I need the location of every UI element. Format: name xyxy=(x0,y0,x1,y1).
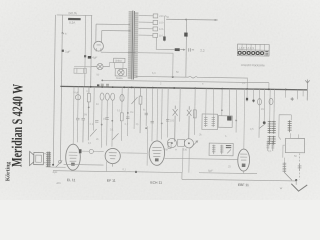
pot arrow x94 xyxy=(90,129,97,137)
coil arrow mid xyxy=(259,123,266,128)
speaker magnet frame xyxy=(34,153,44,165)
osc padder circle left xyxy=(167,138,176,147)
V2 cathode blob xyxy=(71,163,75,166)
node switch xyxy=(52,164,54,166)
wire drop x168 xyxy=(166,88,169,138)
trimmer X symbol right xyxy=(186,106,191,139)
wire drop x122 xyxy=(121,87,123,113)
IF can 1 winding right xyxy=(211,116,215,127)
wire mains drop right xyxy=(60,15,62,160)
wire box left drop xyxy=(283,145,286,158)
V3 pin stub left xyxy=(106,162,108,172)
wire drop x83 xyxy=(82,87,84,119)
chassis bus line xyxy=(60,86,307,89)
speaker magnet inner xyxy=(36,155,42,162)
ballast box Urdox xyxy=(114,58,125,63)
wire x122 tail xyxy=(120,121,122,141)
wire bottom run A xyxy=(64,163,104,166)
wire drop x222 xyxy=(221,89,223,116)
tube V5 EBF11 xyxy=(238,149,250,171)
cap x168 xyxy=(166,119,169,121)
IF transformer winding A xyxy=(212,145,216,155)
wire V4 top pin xyxy=(156,88,159,141)
switch contact circle xyxy=(59,160,62,163)
antenna riser at right xyxy=(306,83,308,100)
wire drop x285 xyxy=(285,90,287,98)
coil winding vertical B2 xyxy=(272,136,276,145)
IF transformer dark marks xyxy=(226,146,231,148)
trimmer on shaft xyxy=(298,164,302,171)
arrow pot small xyxy=(180,49,185,51)
components above V4: resistor xyxy=(168,142,171,148)
oval x271 below bus xyxy=(269,98,273,104)
wire drop x297 xyxy=(297,90,299,100)
osc section box 2 xyxy=(218,116,232,128)
power transformer T1 primary winding ticks xyxy=(128,12,133,78)
IF transformer arrow xyxy=(227,149,231,153)
wire drop x102 xyxy=(100,100,103,147)
grid oval b xyxy=(105,93,109,100)
wire drop x270 xyxy=(269,89,271,120)
wire rect anode right xyxy=(101,30,103,42)
resistor x195 xyxy=(193,110,196,118)
wire drop x146 xyxy=(145,88,148,127)
osc leads down xyxy=(183,148,190,173)
scattered value labels xyxy=(96,71,297,169)
wire drop from heater to AC rail xyxy=(172,53,174,77)
osc pot arrow xyxy=(190,141,197,149)
grid cap small circle V2 xyxy=(89,149,93,153)
components above V5 resistor b xyxy=(271,141,274,151)
trimmer X symbol left xyxy=(172,106,178,142)
output tube V2 EL11 xyxy=(66,144,81,170)
rear connector strip cells xyxy=(242,44,265,56)
dark node x247 xyxy=(246,98,248,101)
wire speaker top link xyxy=(43,154,46,163)
wire lamp box risers xyxy=(109,62,123,68)
wire V4 to V5 coupling xyxy=(164,158,237,159)
labels under osc xyxy=(164,148,188,151)
wire bottom join vertical xyxy=(181,173,183,180)
cap x128 xyxy=(126,117,129,119)
rectifier tube V1 xyxy=(94,41,104,51)
screen oval x122 xyxy=(120,94,124,101)
wire speaker bottom run xyxy=(51,166,65,168)
wire coil top xyxy=(283,158,285,162)
resistor x122 lower xyxy=(120,113,123,121)
tube V3 EF11 circle xyxy=(105,148,120,163)
components above V5 resistor a xyxy=(266,141,269,151)
wire AC rail drop at 247 xyxy=(246,78,248,89)
dial lamp L2 box xyxy=(115,69,127,77)
rear connector sockets row xyxy=(238,51,263,54)
wire mains horizontal top xyxy=(57,14,92,16)
IF can 1 winding left xyxy=(204,116,208,127)
capacitor C1 node xyxy=(62,50,64,52)
IF transformer winding B xyxy=(220,145,224,155)
wire drop x180 xyxy=(179,88,181,122)
node HT rail left xyxy=(101,79,103,81)
cap oval x259 xyxy=(257,99,261,105)
arrow x116 xyxy=(112,133,118,140)
cap x78 xyxy=(76,118,79,120)
node junction on run xyxy=(185,19,187,21)
wire selector lower row xyxy=(156,37,175,49)
bus junction nodes xyxy=(90,86,287,91)
wire drop x134 xyxy=(133,87,136,129)
pot arrow x134 xyxy=(131,97,137,104)
pot arrow bottom right xyxy=(284,172,292,180)
wire drop from junction xyxy=(185,20,188,78)
node on AC rail xyxy=(172,76,174,78)
wire rect anode tap xyxy=(96,23,130,25)
plus mark right xyxy=(291,97,294,100)
wire heater to transformer xyxy=(101,51,136,53)
wire bottom run C xyxy=(182,179,296,181)
wire drop x112 xyxy=(111,100,114,146)
voltage selector tap wires xyxy=(138,16,153,36)
wire drop x264 xyxy=(263,89,265,121)
rear connector strip outline xyxy=(237,44,269,56)
wire chevron drop xyxy=(295,180,297,185)
coil winding vertical A xyxy=(268,121,272,134)
wire V5 bottom drop xyxy=(199,170,257,173)
wire AC indicator rail xyxy=(136,76,248,79)
cap x146 xyxy=(145,113,148,115)
dark node x264 xyxy=(263,121,266,124)
wire drop x152 xyxy=(151,88,154,142)
wire bottom run B xyxy=(53,171,182,173)
wire drop x195 xyxy=(194,88,197,135)
resistor dark on collector xyxy=(163,36,166,40)
V2 internal electrodes xyxy=(69,152,78,161)
wire mains drop left xyxy=(53,15,55,165)
switch arrow xyxy=(56,160,63,167)
wire drop x128 xyxy=(127,87,130,136)
wire drop x247 lower xyxy=(246,89,248,102)
resistor vertical x88 upper xyxy=(87,87,91,141)
dial lamp L1 xyxy=(91,63,110,69)
wire PU box risers xyxy=(290,133,298,138)
resistor R2 block dark xyxy=(184,33,187,37)
cap x97 xyxy=(95,120,98,122)
grid oval a xyxy=(100,93,104,100)
blob above bus x98 xyxy=(97,84,99,86)
wire drop x206 xyxy=(206,88,214,116)
node bottom right xyxy=(295,179,297,181)
V5 internal electrodes xyxy=(240,154,247,160)
IF transformer box bottom xyxy=(209,143,233,156)
wire drop x274 xyxy=(273,89,275,120)
wire HT drop right end xyxy=(268,83,270,90)
label tap voltages xyxy=(159,14,164,38)
chevron wave switch xyxy=(291,184,307,192)
rear connector strip divider xyxy=(238,49,270,51)
node on aux drop xyxy=(84,55,86,57)
wire drop x259 xyxy=(258,89,261,138)
dark blob in box2 xyxy=(227,116,231,120)
fuse F1 xyxy=(68,18,81,20)
wire drop x236 xyxy=(235,89,238,133)
coil winding vertical B xyxy=(272,121,276,134)
V4 cathode blob xyxy=(155,158,159,161)
wire transformer feed down xyxy=(90,15,93,86)
dial lamp L2 xyxy=(118,69,124,75)
wire rect anode tap2 xyxy=(102,29,131,31)
wire drop x303 xyxy=(302,90,304,97)
coil winding vertical A2 xyxy=(267,136,271,145)
osc trimmer box middle xyxy=(178,139,185,146)
tube V4 ECH11 xyxy=(149,141,165,166)
power transformer T1 secondary winding ticks xyxy=(134,13,138,77)
wire selector collector xyxy=(164,16,166,42)
wire drop x78 xyxy=(76,87,79,143)
switch box dashed left xyxy=(74,67,90,74)
wire selector to dial lamp run xyxy=(166,18,217,21)
link line right xyxy=(279,115,292,140)
wire drop x253 xyxy=(252,89,254,103)
dark node x253 xyxy=(252,99,254,101)
V4 internal electrodes xyxy=(152,147,161,156)
power transformer T1 core xyxy=(132,11,135,80)
rear connector right cell marks xyxy=(265,51,268,54)
node on run B xyxy=(135,171,137,173)
coil winding vertical C xyxy=(288,120,292,132)
V5 cathode blob xyxy=(242,164,246,167)
coupling wire x148 xyxy=(121,126,148,166)
cap x107 xyxy=(105,118,108,120)
wire V2 top pin xyxy=(72,87,75,145)
wire drop x107 xyxy=(106,100,109,145)
small cap element xyxy=(189,48,194,51)
AF coil spring xyxy=(283,162,287,172)
output transformer ticks xyxy=(46,153,51,167)
electrolytic C4 xyxy=(75,95,80,100)
grid oval c xyxy=(111,93,115,100)
wire V5 top feed xyxy=(243,89,246,149)
marks above ovals xyxy=(101,84,109,86)
voltage selector plug squares xyxy=(153,14,158,38)
switch mark on mains xyxy=(61,32,64,34)
V3 internal pins xyxy=(109,153,117,167)
lamp resistor block xyxy=(175,48,180,51)
speaker cone xyxy=(29,151,33,165)
capacitor x83 xyxy=(81,118,85,142)
IF can box 1 xyxy=(202,114,218,130)
wire drop x229 xyxy=(228,89,230,116)
wire drop x94 xyxy=(93,87,96,131)
capacitor C2 block xyxy=(88,56,91,59)
arrowhead right end xyxy=(215,19,218,21)
PU box right xyxy=(285,138,304,152)
V2 anode tab dark xyxy=(79,149,82,153)
wire heater run from transformer xyxy=(136,52,173,55)
cap x152 xyxy=(150,121,153,123)
wire V2 to V3 grid xyxy=(81,150,103,152)
tiny labels band1 xyxy=(84,90,147,127)
wire aux drop x84 xyxy=(84,15,87,86)
HT rail xyxy=(102,80,269,82)
antenna symbol xyxy=(305,80,309,83)
resistor x140 xyxy=(139,88,142,134)
misc junction specks band xyxy=(88,106,238,130)
wire drop x162 xyxy=(160,88,163,140)
dashed shaft line xyxy=(298,153,300,179)
osc padder circle right xyxy=(184,139,193,148)
output transformer winding xyxy=(48,152,50,167)
wire rect anode left xyxy=(95,24,97,42)
